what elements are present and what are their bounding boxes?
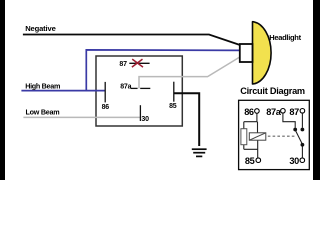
svg-text:Headlight: Headlight [269, 33, 301, 42]
svg-text:87: 87 [289, 107, 299, 117]
svg-text:87: 87 [119, 61, 127, 68]
svg-text:30: 30 [289, 156, 299, 166]
svg-text:85: 85 [169, 103, 177, 110]
svg-text:86: 86 [244, 107, 254, 117]
svg-text:85: 85 [245, 156, 255, 166]
svg-text:High Beam: High Beam [25, 82, 60, 91]
svg-text:30: 30 [141, 116, 149, 123]
svg-text:Low Beam: Low Beam [26, 107, 60, 116]
svg-text:87a: 87a [266, 107, 281, 117]
svg-text:86: 86 [102, 104, 110, 111]
svg-text:Negative: Negative [25, 24, 55, 33]
svg-text:87a: 87a [120, 84, 131, 91]
svg-text:Circuit Diagram: Circuit Diagram [240, 86, 305, 96]
